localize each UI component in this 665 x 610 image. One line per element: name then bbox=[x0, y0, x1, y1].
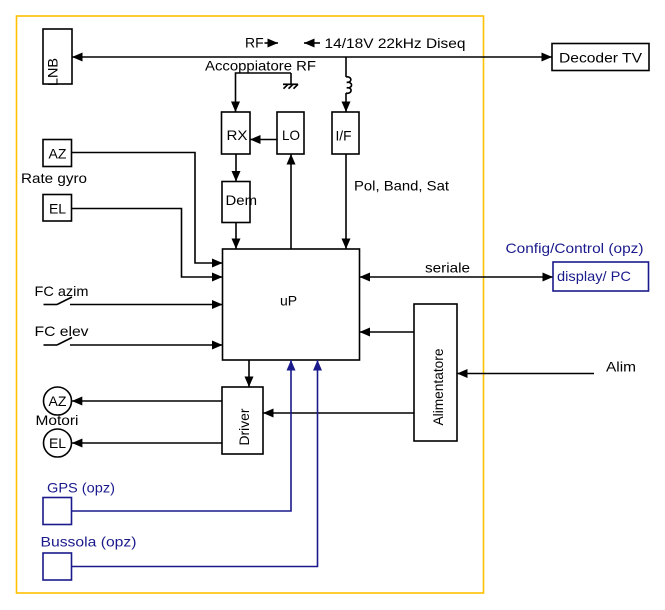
system boundary box bbox=[17, 16, 484, 593]
inductor L1 branch to I/F bbox=[346, 57, 352, 112]
wire Dem to uP bbox=[235, 223, 237, 250]
svg-text:AZ: AZ bbox=[49, 146, 67, 162]
wire Alimentatore to uP bbox=[360, 331, 415, 333]
svg-text:seriale: seriale bbox=[425, 260, 470, 276]
wire LO to RX bbox=[250, 139, 277, 141]
wire FC azim to uP bbox=[70, 304, 223, 306]
motor AZ bbox=[44, 387, 72, 415]
svg-text:EL: EL bbox=[49, 435, 66, 451]
wire AZ gyro to uP bbox=[72, 153, 223, 264]
svg-text:uP: uP bbox=[280, 293, 297, 309]
block uP bbox=[223, 249, 360, 360]
wire GPS to uP bbox=[72, 360, 292, 511]
svg-text:Alim: Alim bbox=[606, 359, 636, 375]
svg-text:Motori: Motori bbox=[36, 412, 79, 428]
svg-text:LNB: LNB bbox=[45, 58, 61, 86]
svg-text:GPS (opz): GPS (opz) bbox=[47, 480, 115, 496]
wire uP to Driver bbox=[248, 360, 250, 387]
svg-text:FC azim: FC azim bbox=[35, 283, 89, 299]
wire to ground bbox=[290, 73, 292, 84]
switch FC elev bbox=[44, 338, 73, 346]
svg-text:RX: RX bbox=[227, 127, 249, 143]
block I/F bbox=[332, 112, 359, 154]
svg-text:LO: LO bbox=[282, 127, 300, 143]
block Decoder TV bbox=[552, 44, 649, 71]
block RX bbox=[222, 112, 251, 154]
block LO bbox=[277, 112, 304, 154]
block GPS bbox=[43, 498, 72, 525]
label 14/18V 22kHz Diseq with arrow bbox=[304, 35, 466, 51]
switch FC azim bbox=[44, 297, 73, 305]
block Alimentatore bbox=[414, 304, 457, 441]
svg-text:Accoppiatore RF: Accoppiatore RF bbox=[205, 58, 316, 74]
wire RX to Dem bbox=[235, 154, 237, 182]
block display/PC bbox=[553, 262, 649, 291]
wire I/F to uP bbox=[345, 154, 347, 249]
wire RF coupler branch bbox=[236, 73, 292, 112]
svg-text:FC elev: FC elev bbox=[35, 323, 89, 339]
svg-text:I/F: I/F bbox=[336, 128, 352, 144]
block LNB bbox=[43, 29, 72, 86]
label RF with arrow bbox=[245, 35, 278, 51]
wire Bussola to uP bbox=[72, 360, 318, 567]
wire uP to LO bbox=[290, 154, 292, 249]
svg-text:display/ PC: display/ PC bbox=[557, 268, 631, 284]
block Driver bbox=[222, 387, 263, 454]
svg-text:EL: EL bbox=[49, 201, 66, 217]
sensor EL bbox=[43, 195, 72, 222]
svg-text:Driver: Driver bbox=[236, 408, 252, 445]
svg-text:Dem: Dem bbox=[226, 192, 258, 208]
wire Driver to EL motor bbox=[72, 442, 222, 444]
block Bussola bbox=[43, 553, 72, 580]
motor EL bbox=[44, 429, 72, 457]
wire seriale uP to display/PC bbox=[360, 260, 554, 278]
svg-text:Decoder TV: Decoder TV bbox=[559, 50, 643, 66]
svg-text:Alimentatore: Alimentatore bbox=[430, 348, 446, 425]
wire EL gyro to uP bbox=[72, 209, 223, 278]
wire Alimentatore to Driver bbox=[263, 412, 414, 414]
wire Alim supply to Alimentatore bbox=[457, 373, 594, 375]
wire FC elev to uP bbox=[70, 344, 223, 346]
block Dem bbox=[222, 182, 257, 223]
svg-text:Rate gyro: Rate gyro bbox=[21, 170, 87, 186]
svg-text:AZ: AZ bbox=[49, 393, 67, 409]
svg-text:RF: RF bbox=[245, 35, 264, 51]
ground (chassis) bbox=[283, 84, 298, 88]
svg-text:Bussola (opz): Bussola (opz) bbox=[41, 534, 137, 550]
sensor AZ bbox=[43, 140, 72, 167]
svg-text:14/18V 22kHz Diseq: 14/18V 22kHz Diseq bbox=[325, 35, 466, 51]
wire RF main line LNB to Decoder TV bbox=[72, 56, 552, 58]
svg-text:Pol, Band, Sat: Pol, Band, Sat bbox=[354, 178, 449, 194]
svg-text:Config/Control (opz): Config/Control (opz) bbox=[506, 240, 644, 256]
wire Driver to AZ motor bbox=[72, 400, 222, 402]
